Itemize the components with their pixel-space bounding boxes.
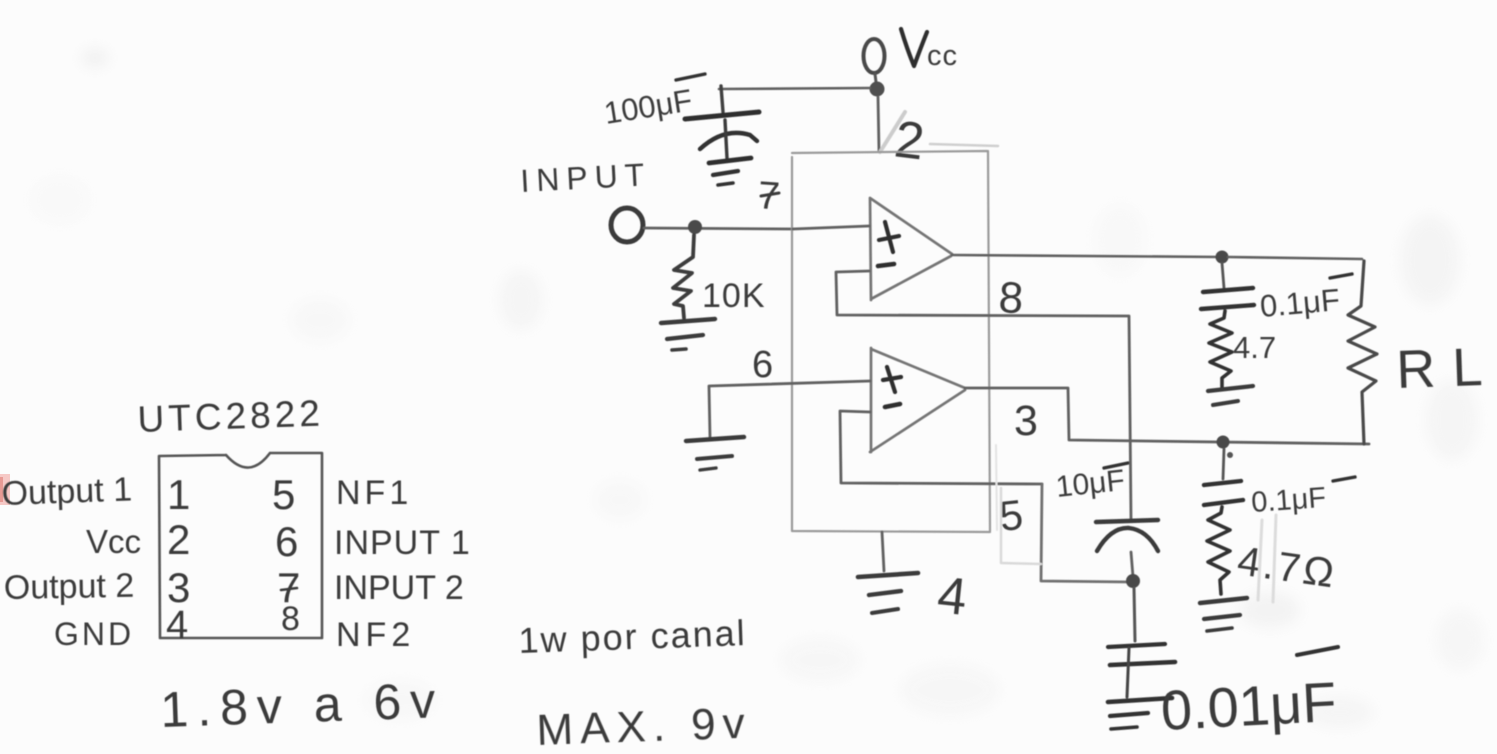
svg-text:2: 2 xyxy=(167,516,190,563)
svg-text:8: 8 xyxy=(997,273,1024,323)
pin 5 faint guide xyxy=(1001,488,1041,564)
ground of R3 xyxy=(1200,598,1247,603)
op-amp A2 plus xyxy=(883,367,901,392)
overline of 10uF xyxy=(1104,463,1128,468)
stray tick below output junction 2 xyxy=(1227,452,1233,458)
ground of R1 xyxy=(661,319,715,323)
resistor RL xyxy=(1348,261,1377,444)
wire junction to C3 xyxy=(1134,588,1135,641)
wire A2 output xyxy=(965,388,1369,444)
svg-text:1w por canal: 1w por canal xyxy=(518,612,747,661)
svg-text:Output 1: Output 1 xyxy=(1,470,133,513)
pinout pin 7 crossbar xyxy=(281,588,297,590)
wire A2 feedback to pin 5 xyxy=(840,411,1042,484)
Vcc terminal xyxy=(864,39,885,73)
svg-text:INPUT 2: INPUT 2 xyxy=(334,569,464,607)
capacitor C4 0.1uF xyxy=(1203,288,1253,292)
svg-text:4: 4 xyxy=(935,566,970,627)
wire input terminal to pin 7 xyxy=(644,228,793,229)
ground of bypass cap xyxy=(709,158,751,163)
IC UTC2822 body xyxy=(792,151,990,532)
wire pin 7 to A1 input xyxy=(793,226,869,229)
wire output top to RL xyxy=(1228,257,1362,259)
overline of 0.1uF C5 xyxy=(1333,477,1355,481)
overline of 0.01uF xyxy=(1297,647,1338,655)
svg-text:UTC2822: UTC2822 xyxy=(137,393,325,440)
svg-text:10K: 10K xyxy=(702,277,766,315)
op-amp A1 xyxy=(870,198,952,300)
node output junction 2 xyxy=(1217,436,1230,449)
svg-text:4.7: 4.7 xyxy=(1233,330,1276,365)
capacitor C5 0.1uF xyxy=(1204,481,1241,485)
node Vcc junction xyxy=(870,82,885,97)
svg-text:5: 5 xyxy=(272,471,295,518)
op-amp A2 xyxy=(870,348,965,452)
svg-text:0.1μF: 0.1μF xyxy=(1259,282,1342,324)
svg-text:1: 1 xyxy=(167,471,190,518)
svg-text:INPUT: INPUT xyxy=(519,156,652,199)
pinout diagram: IC body xyxy=(159,453,322,638)
ground of R2 xyxy=(1208,386,1253,391)
svg-text:Vcc: Vcc xyxy=(86,523,141,560)
wire Vcc terminal to junction xyxy=(875,74,876,82)
svg-text:GND: GND xyxy=(54,616,134,652)
capacitor C1 100uF xyxy=(721,86,723,112)
svg-text:3: 3 xyxy=(1014,397,1038,445)
op-amp A2 minus xyxy=(885,404,900,407)
svg-text:Output 2: Output 2 xyxy=(3,567,134,607)
svg-text:MAX. 9v: MAX. 9v xyxy=(536,699,753,754)
wire A1 feedback to pin 8 xyxy=(836,271,1128,316)
svg-text:8: 8 xyxy=(281,600,300,638)
svg-text:NF1: NF1 xyxy=(336,474,412,512)
op-amp A1 plus xyxy=(879,222,899,252)
svg-text:4: 4 xyxy=(166,603,188,647)
op-amp A1 minus xyxy=(878,264,894,266)
node bootstrap junction xyxy=(1126,574,1140,588)
svg-text:0.1μF: 0.1μF xyxy=(1250,482,1327,519)
wire C4 stem xyxy=(1222,263,1224,288)
node output junction 1 xyxy=(1216,251,1229,264)
overline of 0.1uF C4 xyxy=(1330,274,1352,278)
wire pin 5 to bootstrap junction xyxy=(1041,484,1131,582)
svg-text:6: 6 xyxy=(752,344,773,386)
resistor R2 4.7 xyxy=(1209,311,1232,387)
ground of C3 xyxy=(1108,698,1172,702)
wire pin 8 line down through C2 xyxy=(1129,316,1133,577)
overline of 100uF xyxy=(676,74,705,80)
wire pin 6 to A2 input xyxy=(709,381,870,386)
ground of pin 4 xyxy=(858,573,918,577)
wire pin 6 down xyxy=(709,387,710,437)
ground of pin 6 xyxy=(686,437,744,441)
input terminal xyxy=(611,208,643,242)
svg-text:cc: cc xyxy=(927,40,958,72)
wire Vcc junction to pin 2 xyxy=(878,97,879,151)
svg-text:0.01μF: 0.01μF xyxy=(1159,670,1338,742)
pin 7 label crossbar xyxy=(761,193,779,196)
resistor R3 4.7 ohm xyxy=(1207,507,1230,594)
svg-text:NF2: NF2 xyxy=(336,616,415,654)
node input junction xyxy=(688,220,702,234)
svg-text:INPUT 1: INPUT 1 xyxy=(334,524,471,562)
faint smudge near pin 2 xyxy=(880,112,905,152)
resistor R1 10K xyxy=(673,235,694,318)
svg-text:6: 6 xyxy=(275,518,298,565)
wire A1 output xyxy=(952,255,1222,257)
svg-text:1.8v a 6v: 1.8v a 6v xyxy=(159,672,445,738)
capacitor C3 0.01uF xyxy=(1108,644,1165,647)
wire pin 4 stem xyxy=(882,532,884,571)
capacitor C2 10uF xyxy=(1096,520,1158,522)
wire C5 stem xyxy=(1223,449,1224,479)
wire bypass cap to Vcc junction xyxy=(719,88,870,89)
label Vcc V stroke xyxy=(901,29,927,66)
svg-text:RL: RL xyxy=(1395,336,1497,400)
